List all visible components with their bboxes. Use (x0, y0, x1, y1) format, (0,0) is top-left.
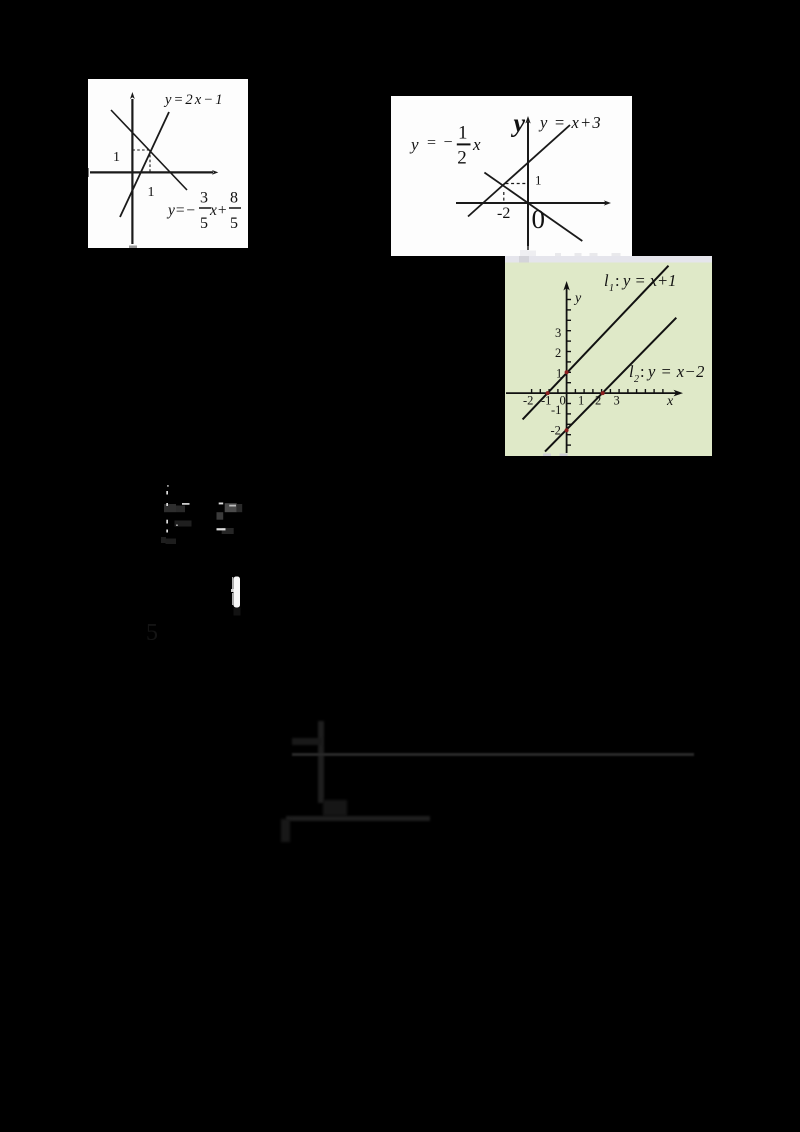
graph 1 line y=-3/5x+8/5 (111, 110, 187, 190)
graph 3 top gray strip (505, 256, 712, 263)
graph 3 label l2: y=x-2 (629, 362, 705, 385)
graph 2 y-axis (525, 116, 530, 250)
svg-text:=: = (427, 135, 436, 152)
svg-text:1: 1 (148, 185, 155, 200)
svg-text::: : (615, 271, 620, 290)
svg-text:x+: x+ (209, 202, 227, 219)
graph 2 dashed guide to intersection (504, 184, 527, 204)
faint sketch: vertical stroke (318, 721, 324, 803)
graph 3 bottom gray tabs (543, 454, 551, 457)
svg-text:x: x (472, 135, 481, 154)
svg-text:3: 3 (555, 326, 561, 340)
graph 3 line l1 y=x+1 (523, 266, 669, 420)
faint sketch: long horizontal line (292, 753, 694, 756)
graph 3 box (green) (505, 256, 712, 456)
svg-text:0: 0 (532, 204, 546, 234)
svg-text:2: 2 (555, 346, 561, 360)
svg-text:y: y (573, 291, 582, 306)
svg-text:−: − (444, 134, 453, 151)
graph 3 red intercept dots (546, 370, 605, 432)
graph 2 x-axis (456, 200, 611, 205)
svg-text:y: y (511, 109, 526, 138)
svg-text:y = x+1: y = x+1 (621, 271, 676, 290)
svg-text:-2: -2 (523, 394, 533, 408)
svg-text:-2: -2 (551, 424, 561, 438)
graph 2 box (white) (391, 96, 632, 256)
faint sketch: lower-left vertical hook (281, 819, 290, 842)
faint digit remnant (146, 620, 158, 647)
graph 3 line l2 y=x-2 (545, 318, 676, 452)
svg-text:1: 1 (113, 150, 120, 165)
svg-text:-2: -2 (497, 205, 510, 222)
svg-text:1: 1 (609, 283, 614, 294)
svg-text:y: y (409, 135, 419, 154)
graph 1 line y=2x-1 (120, 112, 169, 217)
svg-text:x: x (666, 394, 674, 409)
svg-text:y = x−2: y = x−2 (646, 362, 705, 381)
graph 2 faint bottom-edge smudges (555, 253, 621, 256)
svg-text:-1: -1 (541, 394, 551, 408)
graph 3 x-axis (506, 389, 683, 396)
svg-text:2: 2 (634, 374, 639, 385)
svg-text::: : (640, 362, 645, 381)
graph 1 box (white) (88, 79, 248, 248)
faint sketch: upper-left dash (292, 738, 322, 745)
svg-text:8: 8 (230, 190, 238, 207)
faint sketch: mid blob (323, 800, 347, 816)
graph 3 y tick labels (551, 326, 563, 438)
svg-text:y = x+3: y = x+3 (538, 113, 602, 132)
faint sketch: lower horizontal line (286, 816, 430, 821)
graph 1 x-axis (88, 168, 218, 177)
bright white brace remnant (230, 574, 244, 618)
graph 2 label y=-1/2x (409, 123, 481, 169)
svg-text:-1: -1 (551, 403, 561, 417)
svg-text:1: 1 (535, 173, 542, 188)
faint equation remnants cluster (140, 480, 260, 560)
svg-text:5: 5 (230, 215, 238, 232)
graph 1 label y=-3/5x+8/5 (166, 190, 241, 233)
graph 2 line y=-x/2 (484, 173, 582, 242)
graph 3 x tick labels (523, 394, 620, 408)
graph 3 y-axis (563, 281, 571, 453)
graph 3 label l1: y=x+1 (604, 271, 676, 294)
svg-text:y=−: y=− (166, 202, 196, 219)
svg-text:y=2x−1: y=2x−1 (163, 92, 225, 108)
graph 1 dashed guide to intersection (132, 150, 150, 172)
svg-text:1: 1 (458, 123, 468, 144)
graph 3 top-left gray tab (519, 256, 529, 263)
svg-text:1: 1 (556, 367, 562, 381)
graph 2 line y=x+3 (468, 125, 570, 217)
svg-text:2: 2 (595, 394, 601, 408)
svg-text:2: 2 (457, 148, 467, 169)
graph 2 pale gray tabs bottom center (520, 250, 528, 256)
graph 1 y-axis (130, 92, 135, 244)
graph 1 bottom gray tab (129, 246, 137, 249)
svg-text:3: 3 (200, 190, 208, 207)
svg-text:3: 3 (614, 394, 620, 408)
svg-text:5: 5 (200, 215, 208, 232)
svg-text:1: 1 (578, 394, 584, 408)
